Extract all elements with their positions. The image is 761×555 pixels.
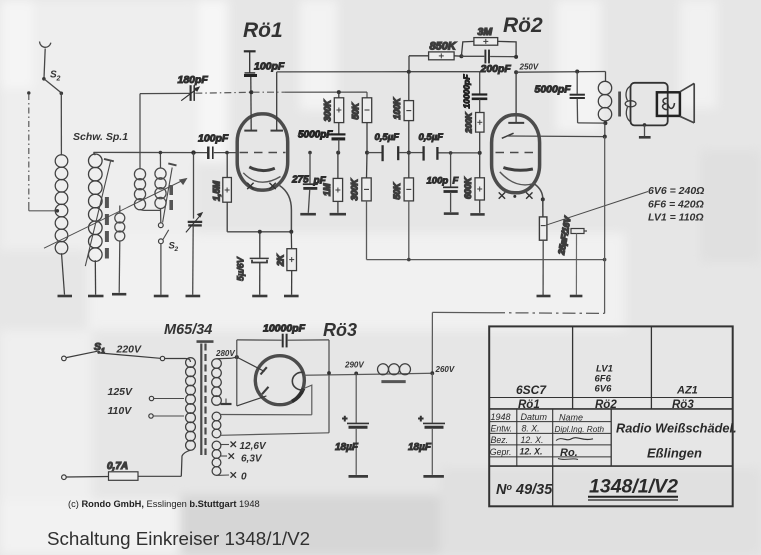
node cathode cap	[258, 230, 262, 234]
svg-text:280V: 280V	[215, 349, 235, 358]
svg-text:5µ/6V: 5µ/6V	[236, 256, 246, 281]
core (output transformer)	[618, 92, 621, 117]
ground speaker	[639, 123, 651, 137]
row Gepr	[490, 446, 578, 459]
transformer rectifier filament winding	[212, 412, 221, 438]
capacitor 200pF	[461, 50, 516, 75]
capacitor 0.5µF (second)	[409, 132, 480, 161]
switch S2 (wave change)	[158, 223, 178, 295]
resistor 50K (lower row)	[392, 153, 414, 260]
table header 1948 Datum Name	[491, 412, 584, 423]
svg-text:12. X.: 12. X.	[521, 435, 544, 445]
svg-text:Bez.: Bez.	[491, 435, 509, 445]
wire rectifier cathode leg	[328, 340, 330, 433]
tube Rö1	[237, 19, 288, 190]
capacitor 18µF (second)	[408, 373, 445, 475]
ground L1	[58, 295, 73, 298]
svg-text:6SC7: 6SC7	[516, 383, 547, 397]
svg-text:18µF: 18µF	[335, 442, 359, 453]
resistor 200K	[464, 112, 485, 153]
svg-text:Schw. Sp.1: Schw. Sp.1	[73, 131, 128, 143]
svg-text:6V6 = 240Ω: 6V6 = 240Ω	[648, 185, 704, 197]
ground L3	[112, 293, 126, 296]
svg-text:200pF: 200pF	[480, 63, 512, 75]
node 300K top	[337, 90, 341, 94]
svg-text:AZ1: AZ1	[676, 385, 698, 397]
resistor 2K	[276, 232, 297, 295]
svg-text:600K: 600K	[463, 176, 473, 199]
wire grid bias line	[253, 92, 368, 98]
transformer HT secondary	[212, 357, 237, 405]
svg-text:125V: 125V	[108, 386, 134, 398]
capacitor 0.5µF (first)	[367, 132, 409, 161]
resistor 1M	[322, 153, 343, 213]
svg-text:M65/34: M65/34	[164, 322, 212, 338]
svg-text:1,5M: 1,5M	[212, 180, 222, 201]
svg-text:10000pF: 10000pF	[263, 323, 306, 335]
wire filament inner leg	[304, 385, 312, 415]
coil L3	[115, 206, 125, 293]
node main line 408	[407, 151, 411, 155]
capacitor 275pF	[291, 151, 327, 213]
svg-text:Entw.: Entw.	[491, 423, 513, 433]
antenna	[40, 42, 51, 79]
wire PSU output	[304, 373, 432, 375]
wire rectifier anode leg	[236, 340, 238, 406]
svg-text:12. X.: 12. X.	[520, 446, 543, 456]
wire Rö2 cathode	[535, 184, 543, 199]
capacitor 5000pF (tone)	[535, 70, 606, 124]
svg-text:100pF: 100pF	[198, 133, 229, 145]
svg-text:Datum: Datum	[521, 412, 548, 422]
svg-text:Rö3: Rö3	[672, 399, 694, 411]
row Entw	[491, 423, 605, 434]
wire Rö1 cathode	[280, 186, 292, 232]
svg-text:Name: Name	[559, 412, 583, 422]
svg-text:250V: 250V	[519, 63, 539, 72]
svg-text:100pF: 100pF	[254, 61, 285, 73]
svg-text:100K: 100K	[392, 96, 402, 119]
node 250V	[514, 55, 605, 74]
label 220V tap	[116, 344, 186, 361]
tube Rö3	[237, 320, 357, 406]
resistor 100K	[392, 70, 414, 153]
tuning gang indicator line	[44, 178, 188, 248]
svg-text:Eßlingen: Eßlingen	[647, 446, 702, 461]
capacitor 100pF (Rö2 grid)	[427, 151, 459, 212]
ground S2	[154, 295, 169, 298]
node cathode R	[289, 230, 293, 234]
coil L4 coupling coil	[134, 94, 160, 211]
variable capacitor (main tuning)	[186, 153, 203, 295]
svg-text:1M: 1M	[322, 183, 332, 196]
svg-text:+: +	[342, 414, 348, 424]
node Rö1 grid	[249, 90, 253, 94]
svg-text:50K: 50K	[351, 101, 361, 119]
label 125V tap	[108, 386, 185, 401]
note tube equivalents	[648, 185, 704, 224]
core adjust lever (L5)	[163, 163, 177, 222]
ground tuning cap	[186, 295, 201, 298]
node 280V	[215, 349, 239, 359]
capacitor 100pF (anode blocking, top)	[244, 51, 285, 75]
tap 6.3V	[221, 453, 263, 464]
node grid R	[225, 151, 229, 155]
svg-text:6,3V: 6,3V	[241, 454, 263, 465]
svg-text:0,5µF: 0,5µF	[375, 132, 400, 143]
node main line 367	[365, 151, 369, 155]
capacitor 5000pF	[298, 130, 346, 153]
svg-text:100p: 100p	[427, 176, 449, 187]
label drawing number 1348/1/V2	[588, 476, 678, 501]
svg-text:180pF: 180pF	[178, 74, 209, 86]
node tuning cap tap	[191, 150, 195, 154]
svg-text:3M: 3M	[478, 26, 493, 38]
node bus right	[603, 258, 607, 262]
node antenna junction	[42, 77, 46, 81]
svg-text:Dipl.Ing. Roth: Dipl.Ing. Roth	[555, 425, 605, 434]
node S2 out	[60, 92, 64, 96]
tap 0	[217, 472, 248, 483]
resistor 300K (screen, lower row)	[350, 153, 372, 260]
coil L1 antenna coil	[55, 155, 68, 295]
svg-text:1948: 1948	[491, 412, 511, 422]
svg-text:2: 2	[174, 246, 179, 253]
fuse 0.7A	[62, 461, 182, 480]
transformer (output) secondary	[625, 86, 636, 123]
svg-text:300K: 300K	[323, 98, 333, 121]
capacitor 25µF/16V	[539, 199, 572, 295]
wire filament top	[221, 414, 312, 416]
switch S1 (mains)	[62, 341, 161, 361]
speaker	[631, 83, 695, 126]
svg-text:290V: 290V	[344, 361, 364, 370]
wire primary to anode	[604, 123, 606, 137]
wire antenna to coil	[60, 93, 62, 155]
svg-text:Schaltung Einkreiser 1348/1/V2: Schaltung Einkreiser 1348/1/V2	[47, 528, 310, 549]
node screen bus	[407, 258, 411, 262]
node primary bottom	[603, 121, 607, 125]
svg-text:12,6V: 12,6V	[240, 441, 267, 452]
resistor 300K (anode)	[323, 92, 344, 134]
ground 275pF	[300, 213, 316, 216]
node 260V	[430, 365, 454, 375]
node 850K/3M junction	[459, 54, 463, 58]
wire B+ bottom (dash-dot)	[432, 311, 492, 313]
ground 2K	[284, 295, 299, 298]
svg-text:110V: 110V	[108, 405, 133, 417]
svg-text:No 49/35: No 49/35	[496, 482, 553, 498]
core L2 (dashed iron core)	[105, 197, 109, 259]
svg-text:Rö3: Rö3	[323, 320, 357, 340]
svg-text:2K: 2K	[276, 253, 286, 267]
transformer core	[197, 342, 214, 455]
node cathode Rö2	[541, 197, 545, 201]
svg-text:5000pF: 5000pF	[535, 84, 572, 96]
ground 1M	[330, 213, 346, 216]
svg-text:F: F	[453, 176, 459, 187]
svg-text:+: +	[418, 414, 424, 424]
svg-text:0,7A: 0,7A	[107, 461, 128, 472]
node 600K top	[478, 151, 482, 155]
tap 12.6V	[221, 441, 267, 452]
svg-text:Rö2: Rö2	[503, 14, 543, 37]
wire B+ to rectifier	[431, 312, 433, 373]
svg-text:220V: 220V	[116, 344, 143, 356]
wire filament bottom	[221, 433, 330, 436]
row Bez	[491, 435, 594, 445]
wire Rö2 anode line	[508, 135, 605, 138]
transformer (output) primary	[598, 72, 611, 124]
resistor 850K	[409, 41, 461, 72]
ground electrolytic	[570, 295, 583, 298]
switch S2 (antenna)	[45, 70, 62, 93]
svg-text:Ro.: Ro.	[560, 447, 578, 459]
svg-text:260V: 260V	[435, 365, 455, 374]
node L5 tap	[159, 151, 163, 155]
svg-text:0,5µF: 0,5µF	[419, 132, 444, 143]
ground 100pF	[444, 212, 459, 215]
transformer primary winding	[181, 358, 195, 477]
svg-text:2: 2	[56, 76, 61, 83]
resistor 50K (top row)	[351, 98, 372, 153]
svg-text:50K: 50K	[392, 181, 402, 199]
node anode/B+	[603, 135, 607, 139]
capacitor 10000pF (grid chain)	[462, 74, 488, 113]
resistor 1.5M	[212, 153, 232, 232]
svg-text:10000pF: 10000pF	[462, 74, 472, 109]
svg-text:300K: 300K	[350, 177, 360, 200]
ground 18µF first	[349, 475, 369, 478]
svg-text:5000pF: 5000pF	[298, 130, 333, 141]
svg-text:0: 0	[241, 472, 247, 483]
coil L5	[155, 152, 166, 222]
wire Rö2 grid	[508, 72, 524, 123]
capacitor 5µ/6V	[236, 232, 269, 295]
resistor 3M	[461, 26, 516, 57]
resistor 600K	[463, 153, 484, 213]
svg-text:6V6: 6V6	[595, 384, 613, 395]
core L5 (dashed)	[169, 185, 173, 211]
svg-text:Rö1: Rö1	[518, 399, 540, 411]
svg-text:Rö2: Rö2	[595, 399, 617, 411]
label 110V tap	[108, 405, 185, 418]
ground 600K	[470, 213, 484, 216]
capacitor 180pF (trimmer)	[140, 74, 252, 101]
pointer line to tube data	[546, 192, 648, 226]
core adjust lever (L2)	[85, 159, 114, 266]
coil L2 Schw.Sp.1 tuning coil	[89, 152, 103, 294]
svg-text:Rö1: Rö1	[243, 19, 283, 42]
wire alternate antenna (dash-dot)	[27, 91, 59, 212]
wire main grid line left	[94, 151, 208, 153]
svg-text:LV1 = 110Ω: LV1 = 110Ω	[648, 212, 704, 224]
transformer heater winding	[212, 441, 221, 475]
wire cathode bus	[227, 231, 291, 233]
svg-text:6F6 = 420Ω: 6F6 = 420Ω	[648, 199, 704, 211]
title block	[489, 326, 733, 506]
svg-text:8. X.: 8. X.	[522, 423, 540, 433]
choke (filter)	[378, 364, 411, 382]
svg-text:Gepr.: Gepr.	[490, 447, 512, 457]
node output/filament	[327, 371, 331, 375]
ground 25µF	[537, 295, 551, 298]
node 290V	[344, 361, 364, 376]
ground HT centertap	[221, 399, 232, 405]
svg-text:200K: 200K	[464, 112, 474, 134]
wire screen bus	[367, 259, 605, 261]
capacitor 10000pF (rectifier)	[237, 323, 329, 348]
capacitor 100pF (grid coupling)	[198, 133, 238, 160]
svg-text:Radio Weißschädel.: Radio Weißschädel.	[616, 421, 737, 436]
capacitor (chassis electrolytic marker)	[569, 227, 588, 295]
svg-text:850K: 850K	[430, 41, 457, 53]
svg-text:18µF: 18µF	[408, 442, 432, 453]
label tubes LV1 6F6 6V6	[595, 364, 613, 395]
ground 5µ cap	[252, 295, 267, 298]
ground L2	[88, 295, 104, 298]
capacitor 18µF (first)	[335, 373, 369, 475]
ground 18µF second	[423, 475, 444, 478]
node anode load tap	[336, 151, 340, 155]
wire anode top line	[277, 72, 480, 94]
tube Rö2	[492, 14, 543, 199]
wire B+ feed vertical	[604, 137, 606, 314]
svg-text:1348/1/V2: 1348/1/V2	[589, 476, 678, 498]
svg-text:(c) Rondo GmbH, Esslingen b.St: (c) Rondo GmbH, Esslingen b.Stuttgart 19…	[68, 499, 260, 509]
